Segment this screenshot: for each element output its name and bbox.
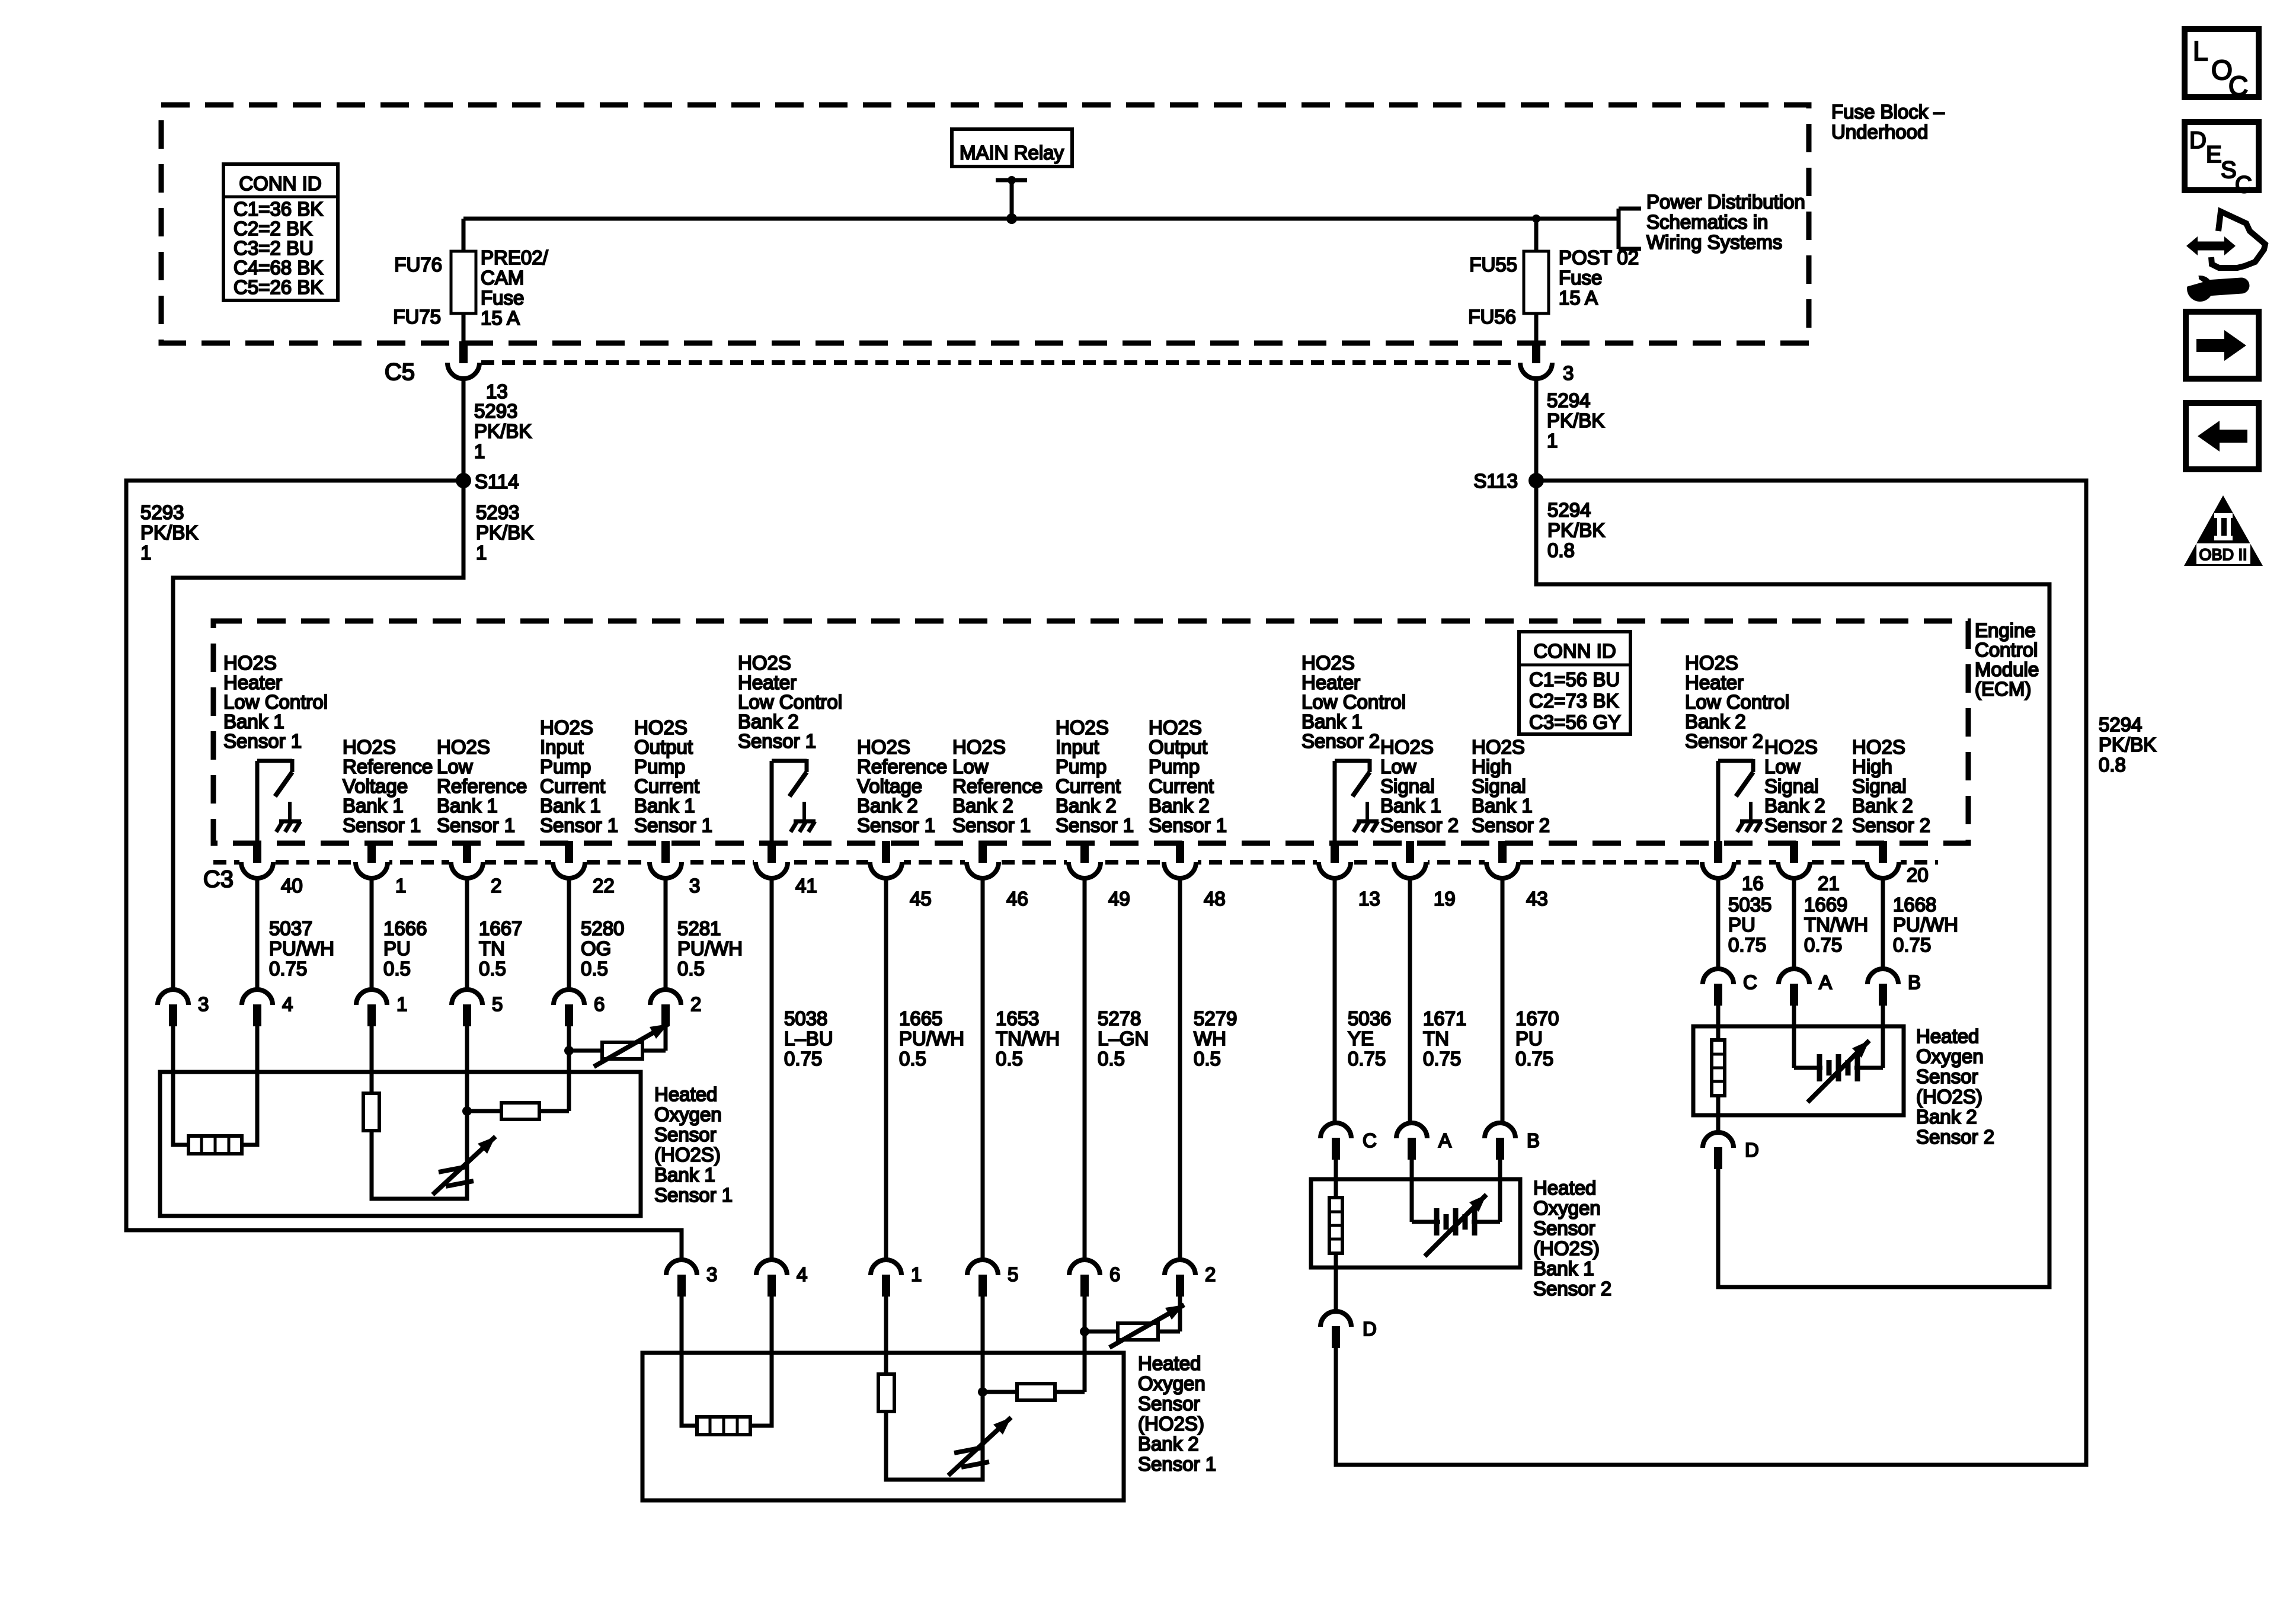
svg-text:22: 22 bbox=[593, 875, 615, 897]
wire pin D to 5294 loop inner bbox=[1716, 1169, 1721, 1287]
connector HO2S B1S1 pin 3 bbox=[158, 990, 188, 1005]
svg-text:Low Control: Low Control bbox=[1685, 691, 1789, 713]
harness dotted line fuse block connectors bbox=[481, 360, 1518, 365]
connector HO2S B2S1 pin 3 bbox=[666, 1260, 697, 1275]
svg-text:Heated: Heated bbox=[1916, 1025, 1979, 1047]
svg-text:PK/BK: PK/BK bbox=[1547, 519, 1605, 541]
svg-text:Bank 1: Bank 1 bbox=[540, 795, 601, 817]
wire sense resistor up to pin6 node B2S1 bbox=[1083, 1331, 1087, 1392]
svg-text:CONN ID: CONN ID bbox=[1533, 640, 1616, 662]
wire 5280 OG 0.5 (pin 22) bbox=[567, 878, 571, 990]
svg-text:FU75: FU75 bbox=[393, 306, 441, 328]
connector ECM pin 48 bbox=[1162, 858, 1198, 866]
svg-text:HO2S: HO2S bbox=[857, 736, 910, 758]
svg-text:0.75: 0.75 bbox=[1515, 1048, 1553, 1070]
wire pin2 stub B2S1 bbox=[1178, 1297, 1182, 1331]
connector ECM pin 3 bbox=[648, 858, 683, 866]
svg-text:Low Control: Low Control bbox=[223, 691, 328, 713]
svg-text:Reference: Reference bbox=[437, 775, 527, 797]
svg-text:Pump: Pump bbox=[540, 756, 591, 777]
svg-text:Control: Control bbox=[1975, 639, 2038, 661]
svg-text:0.8: 0.8 bbox=[2099, 754, 2126, 776]
svg-text:0.75: 0.75 bbox=[1728, 934, 1766, 956]
connector ECM pin 16 bbox=[1700, 858, 1736, 866]
wire pin C to heater B2S2 bbox=[1716, 1006, 1721, 1040]
wire 5281 PU/WH 0.5 (pin 3) bbox=[664, 878, 668, 990]
svg-text:Bank 2: Bank 2 bbox=[1138, 1433, 1199, 1455]
svg-text:Input: Input bbox=[540, 736, 583, 758]
svg-text:5280: 5280 bbox=[581, 917, 624, 939]
svg-text:4: 4 bbox=[797, 1263, 807, 1285]
svg-text:5281: 5281 bbox=[677, 917, 721, 939]
wire 5035 PU 0.75 (pin 16) bbox=[1716, 878, 1721, 969]
svg-text:Sensor 1: Sensor 1 bbox=[654, 1184, 733, 1206]
svg-text:HO2S: HO2S bbox=[1472, 736, 1525, 758]
svg-text:1667: 1667 bbox=[479, 917, 522, 939]
svg-text:1669: 1669 bbox=[1804, 894, 1847, 916]
svg-text:HO2S: HO2S bbox=[634, 716, 687, 738]
junction pin6 node B2S1 bbox=[1080, 1327, 1089, 1336]
svg-text:Low Control: Low Control bbox=[1302, 691, 1406, 713]
svg-text:Signal: Signal bbox=[1764, 775, 1819, 797]
svg-text:0.75: 0.75 bbox=[784, 1048, 822, 1070]
CONN ID table (fuse block) C1=36 BK C2=2 BK C3=2 BU C4=68 BK C5=26 BK bbox=[223, 164, 338, 300]
wire 1666 PU 0.5 (pin 1) bbox=[370, 878, 374, 990]
svg-text:C: C bbox=[1743, 971, 1757, 993]
svg-text:PK/BK: PK/BK bbox=[2099, 734, 2156, 756]
connector HO2S B1S1 pin 6 bbox=[554, 990, 584, 1005]
svg-text:19: 19 bbox=[1434, 888, 1456, 910]
svg-text:CONN ID: CONN ID bbox=[239, 172, 321, 194]
svg-text:Heated: Heated bbox=[1138, 1352, 1201, 1374]
svg-text:0.75: 0.75 bbox=[1804, 934, 1842, 956]
wire pin6 stub bbox=[567, 1026, 571, 1051]
svg-text:5278: 5278 bbox=[1098, 1007, 1141, 1029]
connector HO2S B2S1 pin 6 bbox=[1069, 1260, 1100, 1275]
svg-text:5294: 5294 bbox=[1547, 389, 1590, 411]
svg-text:Engine: Engine bbox=[1975, 619, 2036, 641]
svg-text:(ECM): (ECM) bbox=[1975, 678, 2031, 700]
icon forward arrow bbox=[2186, 312, 2259, 379]
svg-text:Sensor 2: Sensor 2 bbox=[1302, 730, 1380, 752]
svg-text:15 A: 15 A bbox=[481, 307, 520, 329]
svg-text:1665: 1665 bbox=[899, 1007, 942, 1029]
connector HO2S B1S2 pin D bbox=[1320, 1311, 1351, 1327]
box Heated Oxygen Sensor (HO2S) Bank 2 Sensor 1 bbox=[642, 1353, 1124, 1500]
svg-text:1: 1 bbox=[140, 542, 151, 564]
svg-text:Sensor 1: Sensor 1 bbox=[343, 814, 421, 836]
svg-text:S113: S113 bbox=[1473, 470, 1518, 492]
svg-text:0.75: 0.75 bbox=[1348, 1048, 1386, 1070]
box Heated Oxygen Sensor (HO2S) Bank 1 Sensor 1 bbox=[160, 1072, 641, 1216]
svg-text:Output: Output bbox=[1149, 736, 1207, 758]
svg-text:PK/BK: PK/BK bbox=[140, 521, 198, 543]
svg-text:TN: TN bbox=[1423, 1028, 1449, 1049]
svg-text:Input: Input bbox=[1056, 736, 1099, 758]
svg-text:Output: Output bbox=[634, 736, 693, 758]
svg-text:S: S bbox=[2221, 157, 2237, 183]
svg-text:Sensor 2: Sensor 2 bbox=[1764, 814, 1843, 836]
svg-text:C: C bbox=[2228, 71, 2248, 101]
wire pin2 stub bbox=[664, 1026, 668, 1051]
svg-text:Sensor 1: Sensor 1 bbox=[1149, 814, 1227, 836]
svg-text:13: 13 bbox=[486, 380, 508, 402]
wire pin3 to heater B2S1 bbox=[682, 1297, 697, 1426]
svg-text:Sensor 1: Sensor 1 bbox=[437, 814, 515, 836]
svg-text:Schematics in: Schematics in bbox=[1646, 211, 1768, 233]
svg-text:43: 43 bbox=[1526, 888, 1548, 910]
svg-text:OBD II: OBD II bbox=[2199, 546, 2247, 564]
svg-text:Bank 2: Bank 2 bbox=[952, 795, 1013, 817]
svg-text:Sensor 1: Sensor 1 bbox=[223, 730, 302, 752]
wire 1671 TN 0.75 (pin 19) bbox=[1408, 878, 1412, 1124]
svg-text:0.75: 0.75 bbox=[1893, 934, 1931, 956]
wire 1653 TN/WH 0.5 (pin 46) bbox=[981, 878, 985, 1260]
svg-text:1: 1 bbox=[396, 993, 407, 1015]
svg-text:Heated: Heated bbox=[654, 1083, 717, 1105]
svg-text:L: L bbox=[2193, 36, 2208, 66]
wire main feed bus bbox=[463, 217, 1619, 221]
fuse FU76/FU75 PRE02/CAM 15 A bbox=[451, 251, 476, 313]
svg-text:0.5: 0.5 bbox=[1194, 1048, 1221, 1070]
svg-text:Low Control: Low Control bbox=[738, 691, 842, 713]
svg-text:B: B bbox=[1908, 971, 1921, 993]
wire 5294 PK/BK 1 from connector 3 to S113 bbox=[1534, 379, 1539, 481]
connector HO2S B2S1 pin 5 bbox=[967, 1260, 998, 1275]
resistor B1S1 sense bbox=[467, 1109, 501, 1113]
connector ECM pin 46 bbox=[965, 858, 1000, 866]
svg-text:HO2S: HO2S bbox=[540, 716, 593, 738]
svg-text:Low: Low bbox=[952, 756, 989, 777]
svg-text:49: 49 bbox=[1108, 888, 1130, 910]
svg-text:(HO2S): (HO2S) bbox=[654, 1144, 721, 1166]
svg-text:3: 3 bbox=[1563, 362, 1574, 384]
svg-text:(HO2S): (HO2S) bbox=[1533, 1237, 1600, 1259]
svg-text:Low: Low bbox=[437, 756, 473, 777]
connector ECM pin 41 bbox=[754, 858, 789, 866]
svg-text:Bank 1: Bank 1 bbox=[343, 795, 404, 817]
svg-text:0.5: 0.5 bbox=[677, 958, 705, 980]
svg-text:Oxygen: Oxygen bbox=[1916, 1045, 1984, 1067]
svg-text:Sensor 2: Sensor 2 bbox=[1916, 1126, 1994, 1148]
wire 5293 PK/BK 1 from C5 to S114 bbox=[462, 379, 466, 481]
svg-text:Bank 1: Bank 1 bbox=[1472, 795, 1533, 817]
svg-text:0.5: 0.5 bbox=[1098, 1048, 1125, 1070]
svg-text:Oxygen: Oxygen bbox=[1533, 1197, 1601, 1219]
heater element B2S2 bbox=[1712, 1040, 1725, 1096]
svg-text:HO2S: HO2S bbox=[952, 736, 1006, 758]
svg-text:0.75: 0.75 bbox=[1423, 1048, 1461, 1070]
svg-text:Bank 1: Bank 1 bbox=[1302, 710, 1363, 732]
svg-text:Pump: Pump bbox=[1149, 756, 1200, 777]
svg-text:Heater: Heater bbox=[1302, 671, 1360, 693]
svg-text:Bank 2: Bank 2 bbox=[1056, 795, 1117, 817]
svg-text:Heater: Heater bbox=[738, 671, 797, 693]
svg-text:TN: TN bbox=[479, 937, 505, 959]
svg-text:4: 4 bbox=[282, 993, 293, 1015]
wire heater to pin4 B2S1 bbox=[750, 1297, 772, 1426]
svg-text:High: High bbox=[1852, 756, 1892, 777]
svg-text:Bank 1: Bank 1 bbox=[1533, 1257, 1594, 1279]
fork symbol to Power Distribution reference bbox=[1617, 209, 1621, 249]
wire 5279 WH 0.5 (pin 48) bbox=[1178, 878, 1182, 1260]
wire sense resistor up to pin6 node bbox=[567, 1051, 571, 1111]
svg-text:D: D bbox=[1745, 1139, 1759, 1161]
svg-text:1: 1 bbox=[476, 542, 487, 564]
variable resistor (pumping cell) pins 6-2 B2S1 bbox=[1085, 1330, 1118, 1334]
svg-text:5: 5 bbox=[492, 993, 503, 1015]
svg-text:Bank 2: Bank 2 bbox=[1764, 795, 1825, 817]
svg-text:1671: 1671 bbox=[1423, 1007, 1466, 1029]
svg-text:Sensor: Sensor bbox=[1533, 1217, 1595, 1239]
svg-text:POST 02: POST 02 bbox=[1559, 247, 1639, 268]
wire heater to pin4 bbox=[242, 1026, 257, 1145]
connector HO2S B2S1 pin 2 bbox=[1165, 1260, 1195, 1275]
connector HO2S B1S2 pin C bbox=[1320, 1123, 1351, 1138]
svg-text:5038: 5038 bbox=[784, 1007, 827, 1029]
connector ECM pin 13 bbox=[1317, 858, 1352, 866]
variable sensor element B1S1 bbox=[433, 1137, 495, 1195]
svg-text:Bank 1: Bank 1 bbox=[1380, 795, 1441, 817]
wire relay stub to bus bbox=[996, 178, 1027, 183]
wire fuse FU76 drop bbox=[462, 219, 466, 251]
svg-text:6: 6 bbox=[594, 993, 605, 1015]
svg-text:5293: 5293 bbox=[476, 501, 519, 523]
wire 1670 PU 0.75 (pin 43) bbox=[1501, 878, 1505, 1124]
svg-text:Reference: Reference bbox=[857, 756, 947, 777]
connector C5 pin 13 bbox=[446, 359, 481, 367]
svg-text:1: 1 bbox=[474, 440, 485, 462]
svg-text:C3=2 BU: C3=2 BU bbox=[234, 237, 314, 259]
variable sensor element B2S1 bbox=[948, 1417, 1011, 1475]
svg-text:WH: WH bbox=[1194, 1028, 1226, 1049]
svg-text:Fuse Block –: Fuse Block – bbox=[1831, 101, 1945, 123]
svg-text:1653: 1653 bbox=[996, 1007, 1039, 1029]
box Heated Oxygen Sensor (HO2S) Bank 2 Sensor 2 bbox=[1693, 1026, 1904, 1115]
svg-text:Bank 1: Bank 1 bbox=[437, 795, 498, 817]
svg-text:Bank 2: Bank 2 bbox=[1685, 710, 1746, 732]
svg-text:D: D bbox=[1363, 1318, 1377, 1340]
svg-text:MAIN Relay: MAIN Relay bbox=[960, 142, 1064, 164]
svg-text:Voltage: Voltage bbox=[343, 775, 408, 797]
splice S113 bbox=[1528, 473, 1544, 488]
svg-text:(HO2S): (HO2S) bbox=[1916, 1086, 1982, 1108]
svg-text:1: 1 bbox=[911, 1263, 922, 1285]
svg-text:3: 3 bbox=[198, 993, 209, 1015]
svg-text:HO2S: HO2S bbox=[1056, 716, 1109, 738]
svg-text:Bank 2: Bank 2 bbox=[857, 795, 918, 817]
connector HO2S B2S1 pin 4 bbox=[756, 1260, 787, 1275]
svg-text:1666: 1666 bbox=[383, 917, 427, 939]
svg-text:Power Distribution: Power Distribution bbox=[1646, 191, 1805, 213]
svg-text:Current: Current bbox=[1149, 775, 1214, 797]
svg-text:Sensor 2: Sensor 2 bbox=[1380, 814, 1459, 836]
sensing element B2S2 bbox=[1792, 1006, 1796, 1068]
svg-text:Sensor: Sensor bbox=[654, 1124, 717, 1145]
svg-text:C2=2 BK: C2=2 BK bbox=[234, 217, 312, 239]
svg-text:HO2S: HO2S bbox=[1380, 736, 1434, 758]
svg-text:1668: 1668 bbox=[1893, 894, 1936, 916]
svg-text:C5=26 BK: C5=26 BK bbox=[234, 276, 323, 298]
svg-text:15 A: 15 A bbox=[1559, 287, 1598, 309]
ECM dashed outline (Engine Control Module) bbox=[213, 621, 1968, 843]
svg-text:48: 48 bbox=[1204, 888, 1226, 910]
wire pin3 to heater bbox=[173, 1026, 188, 1145]
svg-text:Sensor 1: Sensor 1 bbox=[540, 814, 618, 836]
svg-text:Bank 2: Bank 2 bbox=[1916, 1106, 1977, 1128]
svg-text:Heater: Heater bbox=[223, 671, 282, 693]
svg-text:Reference: Reference bbox=[343, 756, 433, 777]
svg-text:C5: C5 bbox=[385, 359, 415, 385]
svg-text:PRE02/: PRE02/ bbox=[481, 247, 549, 268]
svg-text:Bank 1: Bank 1 bbox=[654, 1164, 715, 1186]
svg-text:Sensor 2: Sensor 2 bbox=[1472, 814, 1550, 836]
svg-text:E: E bbox=[2206, 142, 2222, 168]
wire 1668 PU/WH 0.75 (pin 20) bbox=[1881, 878, 1885, 969]
svg-text:A: A bbox=[1438, 1129, 1451, 1151]
wire 5293 PK/BK 1 left branch to HO2S bank2 sensor1 pin3 bbox=[126, 481, 682, 1260]
svg-text:PU/WH: PU/WH bbox=[269, 937, 334, 959]
svg-text:Module: Module bbox=[1975, 658, 2039, 680]
connector HO2S B2S2 pin C bbox=[1703, 969, 1734, 984]
svg-text:Low: Low bbox=[1764, 756, 1801, 777]
svg-text:PU: PU bbox=[1728, 914, 1755, 936]
svg-text:0.5: 0.5 bbox=[581, 958, 608, 980]
svg-text:PU/WH: PU/WH bbox=[677, 937, 743, 959]
svg-text:PK/BK: PK/BK bbox=[474, 420, 532, 442]
svg-text:Sensor: Sensor bbox=[1916, 1065, 1978, 1087]
svg-text:16: 16 bbox=[1742, 872, 1764, 894]
svg-text:L–BU: L–BU bbox=[784, 1028, 833, 1049]
svg-text:CAM: CAM bbox=[481, 267, 524, 289]
svg-text:Heated: Heated bbox=[1533, 1177, 1596, 1199]
icon back arrow bbox=[2186, 403, 2259, 469]
svg-text:0.5: 0.5 bbox=[996, 1048, 1023, 1070]
wire 5038 L-BU 0.75 (pin 41) bbox=[770, 878, 774, 1260]
heater element B2S1 bbox=[697, 1417, 750, 1435]
svg-text:1: 1 bbox=[395, 875, 406, 897]
svg-text:Heater: Heater bbox=[1685, 671, 1744, 693]
svg-text:5036: 5036 bbox=[1348, 1007, 1391, 1029]
fuse FU55/FU56 POST 02 15 A bbox=[1524, 251, 1549, 313]
svg-text:Signal: Signal bbox=[1852, 775, 1907, 797]
svg-text:PU: PU bbox=[1515, 1028, 1543, 1049]
connector ECM pin 2 bbox=[449, 858, 485, 866]
wire pin1 through trim resistor bbox=[370, 1026, 374, 1093]
svg-text:TN/WH: TN/WH bbox=[996, 1028, 1060, 1049]
connector HO2S B1S1 pin 5 bbox=[452, 990, 482, 1005]
svg-text:HO2S: HO2S bbox=[437, 736, 490, 758]
svg-text:HO2S: HO2S bbox=[738, 652, 791, 674]
svg-text:Sensor 1: Sensor 1 bbox=[1056, 814, 1134, 836]
svg-text:Signal: Signal bbox=[1380, 775, 1435, 797]
svg-text:C: C bbox=[2235, 172, 2252, 198]
svg-text:HO2S: HO2S bbox=[1852, 736, 1905, 758]
icon LOC bbox=[2185, 29, 2259, 97]
svg-text:Pump: Pump bbox=[634, 756, 685, 777]
resistor B2S1 sense bbox=[983, 1390, 1017, 1394]
icon DESC bbox=[2185, 122, 2259, 190]
wire fuse FU55 drop bbox=[1534, 219, 1539, 251]
svg-text:2: 2 bbox=[690, 993, 701, 1015]
svg-text:Sensor: Sensor bbox=[1138, 1393, 1200, 1414]
svg-text:PK/BK: PK/BK bbox=[1547, 409, 1604, 431]
svg-text:Current: Current bbox=[634, 775, 699, 797]
svg-text:Voltage: Voltage bbox=[857, 775, 922, 797]
svg-text:46: 46 bbox=[1006, 888, 1028, 910]
connector ECM pin 49 bbox=[1067, 858, 1102, 866]
wire pin1 through trim resistor B2S1 bbox=[884, 1297, 888, 1374]
svg-text:Fuse: Fuse bbox=[1559, 267, 1602, 289]
svg-text:PU/WH: PU/WH bbox=[899, 1028, 964, 1049]
svg-text:C4=68 BK: C4=68 BK bbox=[234, 257, 323, 279]
svg-text:5: 5 bbox=[1008, 1263, 1018, 1285]
svg-text:5293: 5293 bbox=[474, 400, 517, 422]
svg-text:Wiring Systems: Wiring Systems bbox=[1646, 231, 1782, 253]
connector ECM pin 1 bbox=[354, 858, 389, 866]
svg-text:20: 20 bbox=[1907, 864, 1929, 886]
svg-text:OG: OG bbox=[581, 937, 611, 959]
svg-text:Pump: Pump bbox=[1056, 756, 1107, 777]
wire 5294 PK/BK 0.8 outer branch to HO2S bank1 sensor2 pin D bbox=[1336, 481, 2086, 1465]
connector ECM pin 22 bbox=[551, 858, 587, 866]
svg-text:Current: Current bbox=[1056, 775, 1121, 797]
svg-text:Oxygen: Oxygen bbox=[654, 1103, 722, 1125]
wire 1669 TN/WH 0.75 (pin 21) bbox=[1792, 878, 1796, 969]
connector HO2S B2S2 pin B bbox=[1868, 969, 1898, 984]
sensing element B1S2 bbox=[1410, 1160, 1414, 1222]
svg-text:Sensor 1: Sensor 1 bbox=[634, 814, 712, 836]
svg-text:HO2S: HO2S bbox=[1764, 736, 1818, 758]
svg-text:3: 3 bbox=[689, 875, 700, 897]
svg-text:6: 6 bbox=[1109, 1263, 1120, 1285]
svg-text:13: 13 bbox=[1358, 888, 1380, 910]
svg-text:HO2S: HO2S bbox=[1149, 716, 1202, 738]
wire pin6 stub B2S1 bbox=[1083, 1297, 1087, 1331]
wire pin C to heater B1S2 bbox=[1334, 1160, 1338, 1198]
wire 5037 PU/WH 0.75 (pin 40) bbox=[255, 878, 260, 990]
svg-text:PU/WH: PU/WH bbox=[1893, 914, 1958, 936]
wire 5294 PK/BK 0.8 inner branch to HO2S bank2 sensor2 pin D bbox=[1536, 481, 2049, 1287]
svg-text:Reference: Reference bbox=[952, 775, 1043, 797]
svg-text:5037: 5037 bbox=[269, 917, 312, 939]
svg-text:Sensor 1: Sensor 1 bbox=[1138, 1453, 1216, 1475]
resistor B1S1 (pin 1) bbox=[363, 1093, 379, 1131]
svg-text:45: 45 bbox=[910, 888, 932, 910]
wire 5278 L-GN 0.5 (pin 49) bbox=[1083, 878, 1087, 1260]
svg-text:3: 3 bbox=[706, 1263, 717, 1285]
wire 5036 YE 0.75 (pin 13) bbox=[1333, 878, 1337, 1124]
svg-text:HO2S: HO2S bbox=[1302, 652, 1355, 674]
svg-text:Sensor 2: Sensor 2 bbox=[1852, 814, 1930, 836]
connector ECM pin 43 bbox=[1485, 858, 1520, 866]
variable resistor (pumping cell) pins 6-2 B1S1 bbox=[569, 1049, 602, 1053]
wire pin5 to junction B2S1 bbox=[981, 1297, 985, 1392]
svg-text:Bank 2: Bank 2 bbox=[1149, 795, 1210, 817]
wire FU56 to connector 3 bbox=[1534, 313, 1539, 344]
svg-text:C1=56 BU: C1=56 BU bbox=[1529, 668, 1620, 690]
svg-text:HO2S: HO2S bbox=[1685, 652, 1738, 674]
resistor B2S1 (pin 1) bbox=[878, 1374, 894, 1411]
svg-text:D: D bbox=[2189, 127, 2207, 153]
svg-text:C1=36 BK: C1=36 BK bbox=[234, 198, 323, 220]
junction pin5 node B2S1 bbox=[978, 1387, 987, 1397]
svg-text:Bank 1: Bank 1 bbox=[223, 710, 284, 732]
MAIN Relay box bbox=[952, 129, 1072, 167]
svg-text:21: 21 bbox=[1818, 872, 1840, 894]
heater element B1S1 bbox=[188, 1136, 242, 1154]
svg-text:PK/BK: PK/BK bbox=[476, 521, 533, 543]
